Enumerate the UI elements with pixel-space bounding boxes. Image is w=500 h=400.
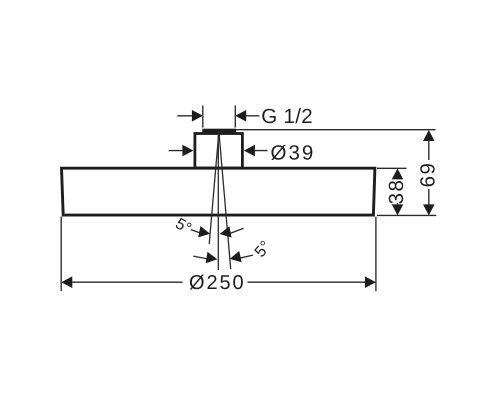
svg-text:Ø250: Ø250 (189, 272, 246, 294)
svg-text:G 1/2: G 1/2 (261, 105, 313, 128)
svg-text:38: 38 (385, 179, 408, 205)
svg-text:69: 69 (416, 162, 439, 188)
svg-text:Ø39: Ø39 (271, 142, 316, 165)
